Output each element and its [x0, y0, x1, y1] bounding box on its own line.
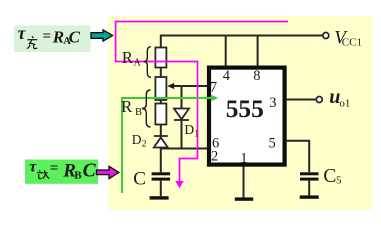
svg-text:1: 1 — [240, 151, 247, 167]
node wire to pins 6/2 — [161, 148, 208, 150]
hanzi fang (discharge) subscript — [37, 170, 49, 179]
svg-text:C: C — [323, 166, 336, 187]
svg-text:5: 5 — [336, 174, 342, 186]
teal block arrow — [91, 30, 113, 41]
svg-text:CC1: CC1 — [342, 36, 362, 48]
svg-text:τ: τ — [18, 23, 27, 43]
brace RB — [142, 90, 151, 127]
diode D1 branch wire (from wiper wire down) — [181, 86, 183, 109]
wire node to capacitor C — [160, 149, 162, 173]
green arrowhead right — [212, 95, 219, 101]
svg-text:R: R — [122, 48, 133, 67]
yellow panel — [109, 16, 373, 210]
discharge highlight path (green polyline) — [122, 98, 212, 193]
resistor RB — [155, 104, 166, 125]
wire C to ground — [160, 181, 162, 197]
ground under pin1 — [235, 197, 253, 200]
magenta arrowhead down — [175, 181, 183, 188]
magenta block arrow — [97, 166, 119, 178]
svg-text:=: = — [50, 160, 59, 176]
wire magenta top — [116, 22, 288, 183]
svg-text:o1: o1 — [339, 97, 350, 109]
capacitor C plates — [152, 172, 171, 175]
ground under C5 — [300, 195, 319, 198]
Vcc rail wire — [161, 36, 323, 48]
charge highlight path (magenta polyline) — [116, 22, 288, 183]
svg-text:B: B — [74, 169, 82, 181]
svg-text:D: D — [132, 132, 142, 147]
wire RA to pot — [160, 68, 162, 78]
svg-text:8: 8 — [253, 68, 260, 84]
wire pin8 drop — [257, 36, 259, 66]
wire C5 to ground — [308, 181, 310, 196]
svg-text:3: 3 — [269, 95, 276, 111]
discharge formula label box — [25, 160, 98, 184]
resistor RA — [155, 48, 166, 68]
wire pin4 drop — [225, 36, 227, 66]
charge formula label box — [14, 26, 91, 53]
svg-text:=: = — [43, 29, 52, 45]
wire D2 to node — [160, 148, 162, 149]
wire pin5 out and down — [286, 141, 310, 173]
wire green — [122, 98, 212, 193]
svg-text:R: R — [121, 97, 133, 116]
wire pot to RB — [160, 100, 162, 104]
svg-text:5: 5 — [269, 136, 276, 152]
wire pin3 out — [286, 99, 317, 101]
svg-text:B: B — [135, 107, 142, 118]
op-amp / timer chip 555 — [209, 68, 285, 165]
diode D1 (triangle pointing down, cathode bar below) — [174, 109, 189, 121]
wiper arrowhead — [167, 83, 174, 89]
ground under C — [150, 196, 169, 199]
wiper wire to pin7 — [173, 85, 210, 87]
svg-text:7: 7 — [210, 80, 217, 96]
svg-text:2: 2 — [211, 149, 218, 165]
svg-text:τ: τ — [29, 158, 37, 175]
svg-text:C: C — [83, 160, 97, 181]
svg-text:C: C — [69, 28, 81, 47]
svg-text:4: 4 — [223, 68, 231, 84]
svg-text:D: D — [184, 122, 194, 137]
brace RA — [144, 47, 151, 78]
svg-text:1: 1 — [194, 129, 199, 139]
svg-text:555: 555 — [226, 95, 264, 123]
wire D1 to node — [181, 120, 183, 149]
wire pin1 down — [243, 167, 245, 198]
wire RB to D2 — [160, 125, 162, 136]
svg-text:C: C — [133, 168, 146, 189]
svg-text:2: 2 — [142, 139, 147, 149]
diode D2 (cathode bar up, triangle pointing up) — [154, 136, 168, 148]
potentiometer body — [155, 77, 166, 100]
terminal uo1 circle — [316, 97, 322, 103]
svg-text:A: A — [134, 58, 142, 69]
terminal Vcc circle — [323, 33, 329, 39]
hanzi chong (charge) subscript — [27, 36, 38, 48]
capacitor C5 plates — [300, 172, 319, 175]
